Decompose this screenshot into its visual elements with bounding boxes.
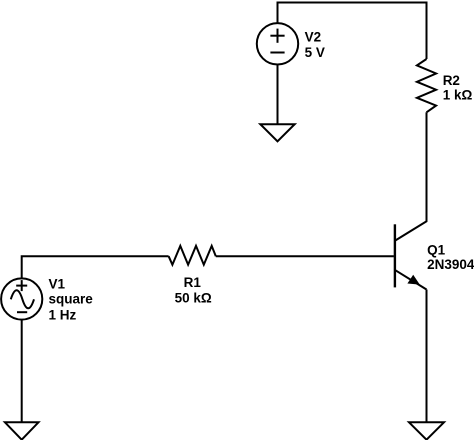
svg-text:1 Hz: 1 Hz — [49, 308, 77, 323]
resistor R2 — [417, 59, 436, 112]
voltage source V1 — [1, 278, 42, 319]
svg-text:square: square — [49, 291, 94, 306]
wire: Q1 emitter to ground — [426, 290, 428, 423]
svg-text:R1: R1 — [184, 275, 202, 290]
svg-text:50 kΩ: 50 kΩ — [175, 290, 212, 305]
svg-text:5 V: 5 V — [305, 45, 325, 60]
svg-text:2N3904: 2N3904 — [427, 257, 474, 272]
ground (below V2) — [260, 124, 294, 141]
wire: R2 bottom to Q1 collector — [426, 112, 428, 221]
voltage source V2 — [257, 23, 298, 64]
resistor R1 — [169, 246, 216, 265]
wire: V2 plus up, top rail, down to R2 top — [278, 3, 427, 60]
wire: V2 minus to ground — [277, 65, 279, 125]
svg-text:R2: R2 — [443, 73, 460, 88]
svg-text:Q1: Q1 — [427, 242, 446, 257]
svg-text:V2: V2 — [305, 29, 322, 44]
ground (emitter) — [409, 422, 444, 439]
wire: R1 to Q1 base — [216, 255, 394, 257]
ground (below V1) — [5, 422, 39, 439]
svg-text:1 kΩ: 1 kΩ — [443, 88, 473, 103]
wire: V1 plus up and base rail left segment — [22, 256, 169, 278]
transistor Q1 — [395, 221, 427, 290]
svg-text:V1: V1 — [49, 276, 66, 291]
wire: V1 minus down to ground — [21, 320, 23, 423]
